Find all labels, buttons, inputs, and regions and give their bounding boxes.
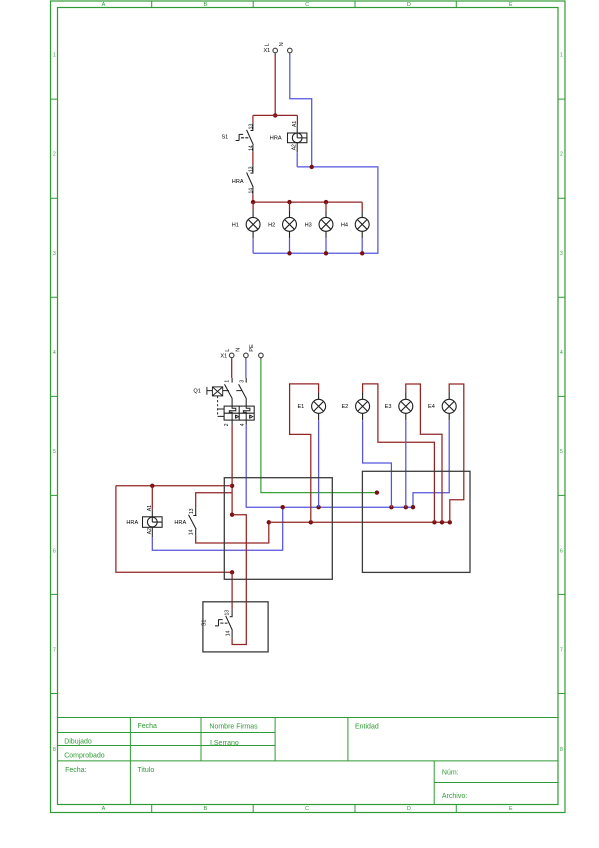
enclosure box middle (224, 478, 332, 580)
wire PE green (261, 359, 377, 492)
switch S1 contact (236, 123, 254, 152)
svg-text:Comprobado: Comprobado (64, 752, 105, 759)
contact HRA (bottom) top wire (196, 493, 232, 508)
svg-text:1: 1 (53, 52, 56, 58)
svg-text:13: 13 (248, 124, 254, 130)
svg-text:N: N (279, 42, 285, 46)
svg-text:A: A (102, 806, 106, 812)
wire L phase down from terminal (274, 54, 276, 115)
frame column letters top (102, 2, 513, 8)
svg-text:I.Serrano: I.Serrano (210, 740, 239, 747)
svg-text:H4: H4 (341, 222, 348, 228)
terminal X1:PE (bottom) (259, 353, 264, 358)
lamp E1 (312, 393, 326, 421)
Q1 handle (207, 387, 242, 396)
svg-text:2: 2 (53, 152, 56, 158)
Q1 magnetic element pole1 (235, 415, 238, 419)
wire stubs lamps to bottom rail (blue) (253, 238, 362, 253)
svg-text:HRA: HRA (232, 179, 244, 185)
svg-text:4: 4 (560, 350, 563, 356)
breaker Q1 pole 1 (225, 378, 233, 406)
wire S1 14 loop to Q1 L (232, 515, 246, 645)
Q1 trip linkage dashed (218, 396, 225, 417)
svg-text:HRA: HRA (126, 520, 138, 526)
svg-text:Fecha:: Fecha: (65, 767, 86, 774)
svg-text:X1: X1 (263, 48, 270, 54)
lamp E3 (399, 393, 413, 421)
svg-text:Fecha: Fecha (138, 723, 158, 730)
svg-text:Entidad: Entidad (355, 724, 379, 731)
svg-text:8: 8 (53, 747, 56, 753)
terminal stubs (275, 53, 290, 55)
lamp E2 (356, 393, 370, 421)
Q1 thermal element pole1 (229, 406, 236, 420)
wire HRA to lamp rail (252, 194, 254, 202)
wire N from terminal (290, 54, 312, 167)
svg-text:E4: E4 (428, 404, 435, 410)
lamp H2 (283, 211, 297, 238)
svg-text:Q1: Q1 (193, 389, 200, 395)
svg-text:A2: A2 (292, 144, 298, 150)
svg-text:5: 5 (560, 449, 563, 455)
svg-text:14: 14 (225, 630, 231, 636)
svg-text:1: 1 (560, 52, 563, 58)
svg-text:14: 14 (248, 145, 254, 151)
contact HRA (top circuit) (247, 165, 254, 194)
svg-text:2: 2 (560, 152, 563, 158)
svg-text:B: B (203, 2, 207, 8)
junction dot L rail1 (230, 484, 234, 488)
svg-text:A1: A1 (292, 121, 298, 127)
svg-text:A: A (102, 2, 106, 8)
junction dot N rail (310, 165, 314, 169)
terminal X1:N (288, 48, 293, 53)
svg-text:13: 13 (248, 166, 254, 172)
wire rail1 left (116, 485, 232, 487)
svg-text:D: D (407, 806, 411, 812)
svg-text:H2: H2 (268, 222, 275, 228)
svg-text:7: 7 (53, 648, 56, 654)
svg-text:6: 6 (53, 548, 56, 554)
svg-text:E: E (509, 2, 513, 8)
frame row numbers left (53, 52, 56, 752)
junction dots bottom rail (287, 251, 364, 255)
lamp H4 (355, 211, 369, 238)
wire lamp top rail (253, 201, 362, 203)
svg-text:E3: E3 (385, 404, 392, 410)
svg-text:7: 7 (560, 648, 563, 654)
title block texts (64, 723, 467, 800)
svg-text:S1: S1 (221, 135, 228, 141)
relay coil HRA (bottom) (143, 510, 163, 537)
wire coil A1 red (151, 486, 153, 510)
svg-text:4: 4 (53, 350, 56, 356)
junction dot L (273, 113, 277, 117)
terminal stubs (bottom) (232, 358, 261, 360)
junction dots B1 (281, 505, 416, 509)
svg-text:L: L (265, 43, 271, 46)
junction dot coil branch (150, 484, 154, 488)
svg-text:Archivo:: Archivo: (442, 793, 467, 800)
relay coil HRA (top) (288, 126, 307, 152)
title block grid (58, 718, 559, 805)
Q1 thermal-magnetic block (224, 406, 254, 420)
terminal X1:L (273, 48, 278, 53)
svg-text:3: 3 (240, 380, 246, 383)
enclosure box right (362, 471, 470, 572)
junction dots R5 (309, 520, 452, 524)
svg-text:N: N (236, 348, 242, 352)
junction dot S1 feed (230, 570, 234, 574)
svg-text:E: E (509, 806, 513, 812)
svg-text:Titulo: Titulo (137, 767, 154, 774)
wire E3 feed red (406, 384, 442, 522)
svg-text:13: 13 (225, 610, 231, 616)
junction dot L corner (230, 513, 234, 517)
wire N rail B1 (246, 420, 449, 507)
wire E2 bottom blue (363, 420, 392, 507)
svg-text:6: 6 (560, 548, 563, 554)
wire coil A2 blue to N rail (152, 507, 282, 550)
svg-text:L: L (225, 349, 231, 352)
wire R5 lamp feed rail (269, 521, 450, 523)
breaker Q1 pole 2 (239, 378, 247, 406)
svg-text:HRA: HRA (270, 135, 282, 141)
wire E1 bottom blue (318, 420, 320, 507)
svg-text:3: 3 (560, 251, 563, 257)
wire L to Q1 (231, 359, 233, 378)
svg-text:8: 8 (560, 747, 563, 753)
wire E3 bottom blue (405, 420, 407, 507)
svg-text:X1: X1 (220, 353, 227, 359)
junction dot R5 left end (267, 520, 271, 524)
wire E4 feed red (449, 384, 464, 522)
wire L to coil A1 (296, 115, 298, 125)
contact HRA (bottom) (189, 508, 197, 536)
wire lamp bottom rail (N) (253, 167, 378, 253)
svg-text:13: 13 (189, 508, 195, 514)
wire E1 feed red (290, 384, 319, 522)
frame column letters bottom (102, 806, 513, 812)
wire left loop (116, 486, 232, 573)
svg-text:HRA: HRA (174, 520, 186, 526)
junction dot PE end (375, 490, 379, 494)
lamp E4 (442, 393, 456, 421)
svg-text:E2: E2 (341, 404, 348, 410)
terminal X1:N (bottom) (244, 353, 249, 358)
svg-text:Núm:: Núm: (442, 769, 459, 776)
svg-text:14: 14 (248, 188, 254, 194)
wire E2 feed red (363, 384, 435, 522)
svg-text:14: 14 (188, 529, 194, 535)
wire S1 to HRA contact (252, 152, 254, 165)
svg-text:B: B (203, 806, 207, 812)
Q1 magnetic element pole2 (250, 415, 253, 419)
frame row numbers right (560, 52, 563, 752)
svg-text:H3: H3 (305, 222, 312, 228)
Q1 thermal element pole2 (243, 406, 250, 420)
svg-text:2: 2 (224, 423, 230, 426)
svg-text:E1: E1 (297, 404, 304, 410)
svg-text:5: 5 (53, 449, 56, 455)
wire to S1 top (252, 115, 254, 122)
wire stubs rail to lamps (red) (253, 202, 362, 211)
svg-text:1: 1 (225, 380, 231, 383)
svg-text:A1: A1 (147, 505, 153, 511)
svg-text:3: 3 (53, 251, 56, 257)
lamp H3 (319, 211, 333, 238)
svg-text:PE: PE (249, 344, 255, 352)
wire coil A2 to N rail (296, 152, 298, 167)
enclosure box S1 (203, 602, 268, 652)
svg-text:Dibujado: Dibujado (64, 739, 92, 746)
svg-text:Nombre Firmas: Nombre Firmas (209, 724, 258, 731)
svg-text:C: C (305, 806, 309, 812)
svg-text:4: 4 (240, 423, 246, 426)
svg-text:A2: A2 (147, 528, 153, 534)
wire N to Q1 (245, 359, 247, 378)
terminal X1:L (bottom) (229, 353, 234, 358)
wire Q1 L down (231, 425, 233, 515)
Q1 exit pins (232, 420, 246, 425)
svg-text:H1: H1 (232, 222, 239, 228)
junction dots top rail (251, 200, 328, 204)
wire L branch horizontal (253, 114, 298, 116)
wire S1 feed down (231, 572, 233, 609)
svg-text:D: D (407, 2, 411, 8)
svg-text:C: C (305, 2, 309, 8)
switch S1 (bottom box) (215, 609, 233, 638)
wire HRA contact 14 to R5 (196, 522, 269, 543)
lamp H1 (246, 211, 260, 238)
